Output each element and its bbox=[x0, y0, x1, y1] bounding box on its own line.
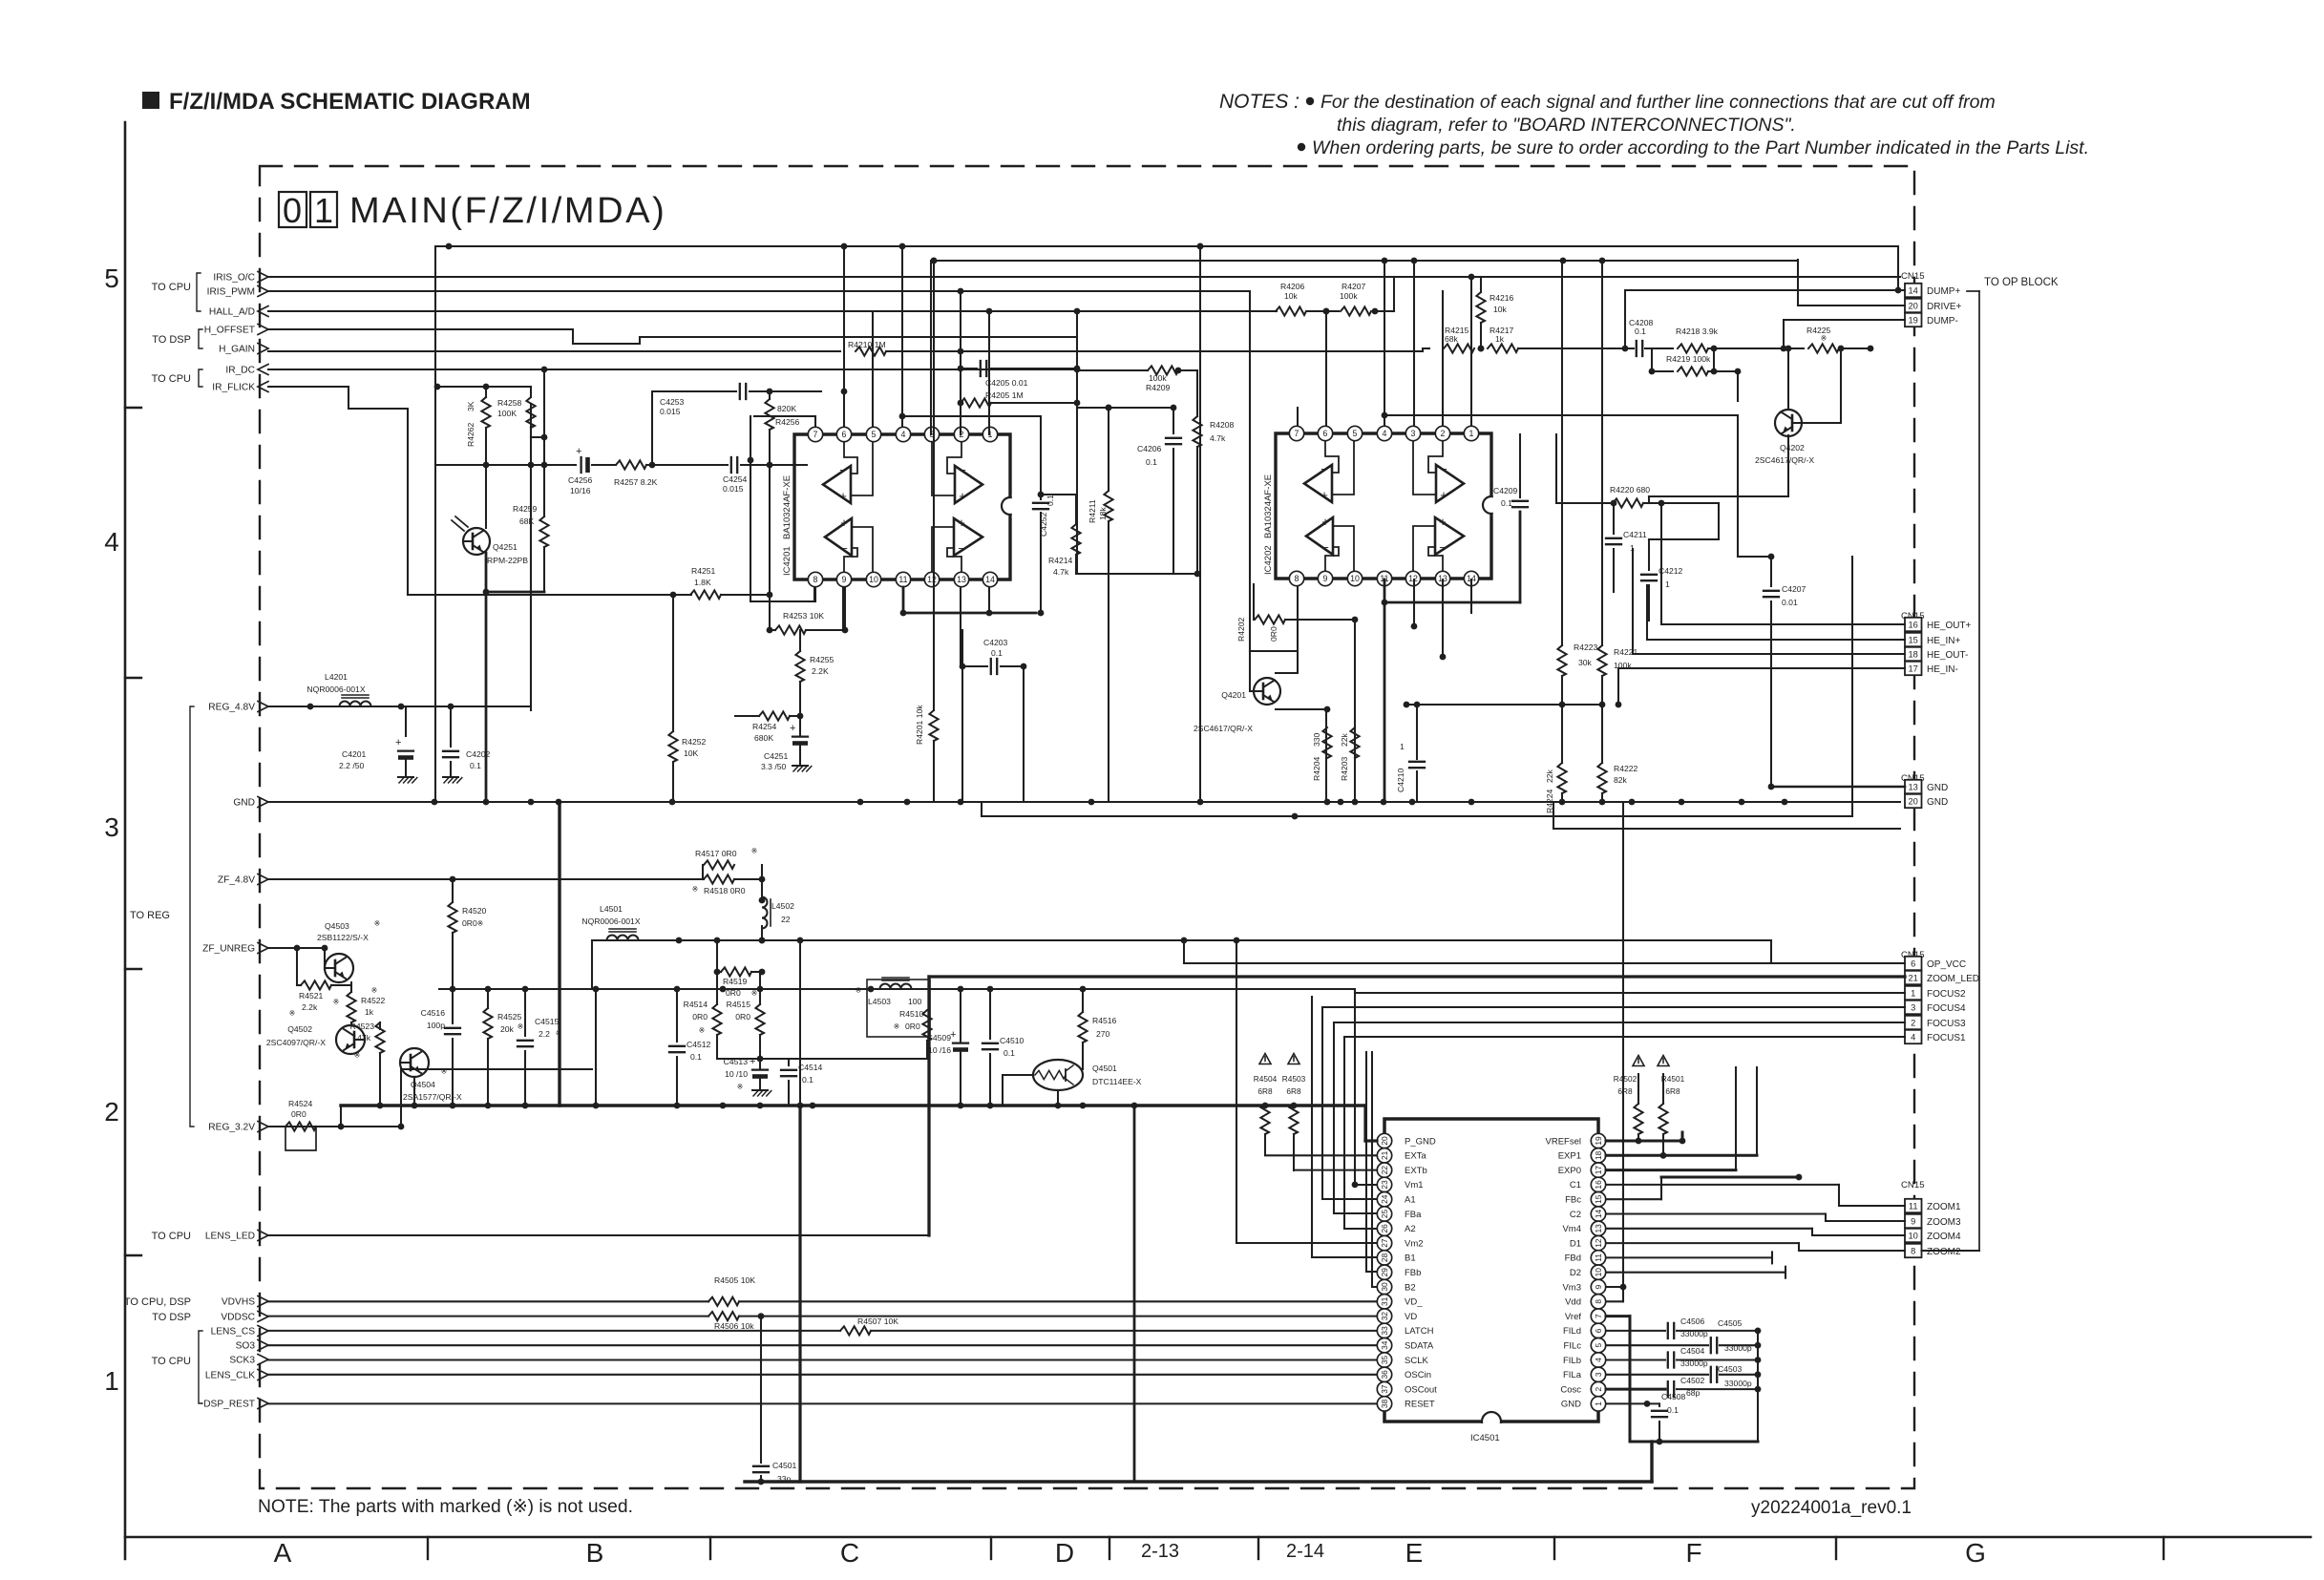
svg-text:R4225: R4225 bbox=[1806, 326, 1831, 335]
svg-text:※: ※ bbox=[371, 986, 378, 995]
svg-text:4.7k: 4.7k bbox=[1210, 433, 1226, 443]
svg-text:R4205 1M: R4205 1M bbox=[985, 390, 1024, 400]
svg-text:0R0: 0R0 bbox=[735, 1012, 750, 1022]
svg-text:R4524: R4524 bbox=[288, 1099, 313, 1108]
svg-text:2.2: 2.2 bbox=[539, 1029, 550, 1039]
svg-text:2: 2 bbox=[1594, 1386, 1603, 1391]
svg-text:Q4502: Q4502 bbox=[287, 1024, 312, 1034]
svg-text:LENS_LED: LENS_LED bbox=[205, 1232, 255, 1242]
svg-text:LATCH: LATCH bbox=[1405, 1326, 1434, 1337]
svg-text:Q4201: Q4201 bbox=[1221, 690, 1246, 700]
svg-text:C4206: C4206 bbox=[1137, 444, 1162, 453]
svg-text:100: 100 bbox=[908, 997, 922, 1006]
svg-text:FILb: FILb bbox=[1563, 1356, 1581, 1366]
svg-text:R4521: R4521 bbox=[299, 991, 324, 1001]
svg-text:IC4501: IC4501 bbox=[1470, 1433, 1500, 1443]
svg-text:VD: VD bbox=[1405, 1312, 1417, 1322]
svg-text:C4202: C4202 bbox=[466, 749, 491, 759]
svg-text:0.1: 0.1 bbox=[470, 761, 481, 770]
svg-text:IC4202: IC4202 bbox=[1263, 545, 1274, 575]
svg-text:TO CPU: TO CPU bbox=[152, 1356, 191, 1367]
svg-text:TO CPU: TO CPU bbox=[152, 373, 191, 385]
svg-text:C4512: C4512 bbox=[687, 1040, 711, 1049]
svg-text:IR_DC: IR_DC bbox=[225, 366, 255, 376]
svg-text:P_GND: P_GND bbox=[1405, 1136, 1436, 1147]
svg-text:DSP_REST: DSP_REST bbox=[203, 1400, 255, 1410]
svg-text:OSCin: OSCin bbox=[1405, 1370, 1431, 1380]
svg-text:R4520: R4520 bbox=[462, 906, 487, 916]
svg-text:※: ※ bbox=[751, 847, 758, 855]
svg-text:4: 4 bbox=[1911, 1032, 1915, 1042]
svg-text:R4220 680: R4220 680 bbox=[1610, 485, 1650, 495]
svg-text:2.2k: 2.2k bbox=[302, 1002, 318, 1012]
svg-text:0R0: 0R0 bbox=[905, 1022, 920, 1031]
svg-text:GND: GND bbox=[1927, 797, 1948, 808]
svg-text:680K: 680K bbox=[754, 733, 773, 743]
svg-text:Cosc: Cosc bbox=[1560, 1384, 1581, 1395]
svg-text:0R0: 0R0 bbox=[1269, 626, 1278, 642]
svg-text:※: ※ bbox=[751, 989, 758, 998]
svg-text:R4202: R4202 bbox=[1236, 617, 1246, 642]
svg-text:12: 12 bbox=[1594, 1238, 1603, 1248]
svg-text:※: ※ bbox=[737, 1083, 744, 1091]
svg-text:820K: 820K bbox=[777, 404, 796, 413]
svg-text:L4201: L4201 bbox=[325, 672, 348, 682]
svg-text:10: 10 bbox=[1350, 574, 1360, 583]
svg-text:23: 23 bbox=[1380, 1180, 1389, 1190]
svg-text:1: 1 bbox=[1594, 1401, 1603, 1406]
svg-text:C4505: C4505 bbox=[1718, 1318, 1743, 1328]
svg-text:RPM-22PB: RPM-22PB bbox=[487, 556, 528, 565]
svg-text:SDATA: SDATA bbox=[1405, 1341, 1434, 1352]
svg-text:−: − bbox=[958, 541, 965, 556]
svg-text:C4501: C4501 bbox=[772, 1461, 797, 1470]
svg-text:REG_3.2V: REG_3.2V bbox=[208, 1123, 255, 1133]
svg-text:A1: A1 bbox=[1405, 1195, 1416, 1206]
svg-text:C4252: C4252 bbox=[1039, 512, 1048, 537]
svg-text:27: 27 bbox=[1380, 1238, 1389, 1248]
svg-text:FOCUS1: FOCUS1 bbox=[1927, 1033, 1966, 1043]
svg-text:1: 1 bbox=[1400, 742, 1405, 751]
svg-text:0R0: 0R0 bbox=[692, 1012, 708, 1022]
svg-text:10: 10 bbox=[1594, 1268, 1603, 1277]
svg-text:3: 3 bbox=[1411, 429, 1416, 438]
svg-text:R4204: R4204 bbox=[1312, 756, 1321, 781]
svg-text:C4205 0.01: C4205 0.01 bbox=[985, 378, 1028, 388]
svg-text:DRIVE+: DRIVE+ bbox=[1927, 302, 1962, 312]
svg-text:6R8: 6R8 bbox=[1665, 1086, 1680, 1096]
svg-text:FILd: FILd bbox=[1563, 1326, 1581, 1337]
svg-text:10 /10: 10 /10 bbox=[725, 1069, 748, 1079]
svg-text:Vm4: Vm4 bbox=[1562, 1224, 1581, 1234]
svg-text:ZOOM3: ZOOM3 bbox=[1927, 1217, 1961, 1228]
svg-text:TO CPU, DSP: TO CPU, DSP bbox=[124, 1296, 191, 1308]
svg-text:C4506: C4506 bbox=[1680, 1317, 1705, 1326]
svg-text:A: A bbox=[274, 1538, 292, 1568]
svg-text:BA10324AF-XE: BA10324AF-XE bbox=[782, 475, 792, 539]
svg-text:2SC4617/QR/-X: 2SC4617/QR/-X bbox=[1194, 724, 1253, 733]
svg-text:R4223: R4223 bbox=[1574, 643, 1598, 652]
svg-text:※: ※ bbox=[333, 998, 340, 1006]
svg-text:Q4501: Q4501 bbox=[1092, 1064, 1117, 1073]
svg-text:R4501: R4501 bbox=[1661, 1074, 1685, 1084]
svg-text:19: 19 bbox=[1909, 315, 1918, 325]
svg-text:DUMP+: DUMP+ bbox=[1927, 286, 1960, 297]
svg-text:6R8: 6R8 bbox=[1257, 1086, 1273, 1096]
svg-text:FBd: FBd bbox=[1565, 1253, 1581, 1264]
svg-text:C4207: C4207 bbox=[1782, 584, 1806, 594]
svg-text:0.1: 0.1 bbox=[1667, 1405, 1679, 1415]
svg-text:Vm2: Vm2 bbox=[1405, 1238, 1424, 1249]
svg-text:IR_FLICK: IR_FLICK bbox=[212, 383, 255, 393]
svg-text:7: 7 bbox=[1295, 429, 1299, 438]
svg-text:20k: 20k bbox=[500, 1024, 515, 1034]
svg-text:EXTb: EXTb bbox=[1405, 1166, 1427, 1176]
svg-text:0.1: 0.1 bbox=[1501, 498, 1512, 508]
svg-text:+: + bbox=[1321, 515, 1329, 529]
svg-text:1k: 1k bbox=[365, 1007, 374, 1017]
svg-text:C: C bbox=[840, 1538, 859, 1568]
svg-text:R4251: R4251 bbox=[691, 566, 716, 576]
svg-text:−: − bbox=[1440, 462, 1447, 476]
svg-text:10: 10 bbox=[1909, 1231, 1918, 1240]
svg-text:25: 25 bbox=[1380, 1210, 1389, 1219]
svg-text:8: 8 bbox=[1295, 574, 1299, 583]
svg-text:0R0: 0R0 bbox=[726, 988, 741, 998]
svg-text:OP_VCC: OP_VCC bbox=[1927, 959, 1966, 970]
svg-text:FOCUS2: FOCUS2 bbox=[1927, 989, 1966, 1000]
svg-text:B: B bbox=[586, 1538, 604, 1568]
svg-text:y20224001a_rev0.1: y20224001a_rev0.1 bbox=[1751, 1498, 1912, 1518]
svg-text:TO DSP: TO DSP bbox=[152, 1312, 191, 1323]
svg-text:R4517 0R0: R4517 0R0 bbox=[695, 849, 737, 858]
svg-text:DTC114EE-X: DTC114EE-X bbox=[1092, 1077, 1142, 1086]
svg-text:2-14: 2-14 bbox=[1286, 1541, 1324, 1562]
svg-text:R4262: R4262 bbox=[466, 422, 475, 447]
svg-text:8: 8 bbox=[813, 575, 818, 584]
svg-text:VREFsel: VREFsel bbox=[1546, 1136, 1581, 1147]
svg-text:C4515: C4515 bbox=[535, 1017, 560, 1026]
svg-text:SO3: SO3 bbox=[236, 1341, 256, 1352]
svg-text:R4514: R4514 bbox=[684, 1000, 708, 1009]
svg-text:3.3 /50: 3.3 /50 bbox=[761, 762, 787, 771]
svg-text:1: 1 bbox=[314, 191, 333, 230]
svg-text:Vref: Vref bbox=[1565, 1312, 1581, 1322]
svg-text:※: ※ bbox=[289, 1009, 296, 1018]
svg-text:R4518 0R0: R4518 0R0 bbox=[704, 886, 746, 895]
svg-text:9: 9 bbox=[1911, 1216, 1915, 1226]
svg-text:19: 19 bbox=[1594, 1136, 1603, 1146]
svg-text:FBc: FBc bbox=[1565, 1195, 1581, 1206]
svg-text:9: 9 bbox=[1594, 1284, 1603, 1289]
svg-text:GND: GND bbox=[1927, 783, 1948, 793]
svg-text:10 /16: 10 /16 bbox=[928, 1045, 951, 1055]
svg-text:OSCout: OSCout bbox=[1405, 1384, 1437, 1395]
svg-text:FOCUS3: FOCUS3 bbox=[1927, 1019, 1966, 1029]
svg-text:12: 12 bbox=[927, 575, 937, 584]
svg-text:HALL_A/D: HALL_A/D bbox=[209, 307, 255, 318]
svg-text:R4522: R4522 bbox=[361, 996, 386, 1005]
svg-text:1.8K: 1.8K bbox=[694, 578, 711, 587]
svg-text:6R8: 6R8 bbox=[1617, 1086, 1633, 1096]
svg-text:※: ※ bbox=[692, 885, 699, 894]
svg-text:14: 14 bbox=[985, 575, 995, 584]
svg-text:5: 5 bbox=[872, 430, 877, 439]
svg-text:14: 14 bbox=[1909, 285, 1918, 295]
svg-text:R4214: R4214 bbox=[1048, 556, 1073, 565]
svg-text:D2: D2 bbox=[1570, 1268, 1581, 1278]
svg-text:L4502: L4502 bbox=[771, 901, 794, 911]
svg-text:R4506 10k: R4506 10k bbox=[714, 1321, 754, 1331]
svg-text:15: 15 bbox=[1594, 1194, 1603, 1204]
svg-text:IRIS_PWM: IRIS_PWM bbox=[207, 287, 255, 298]
svg-text:−: − bbox=[1439, 540, 1447, 555]
svg-text:R4257 8.2K: R4257 8.2K bbox=[614, 477, 658, 487]
svg-text:D1: D1 bbox=[1570, 1238, 1581, 1249]
svg-text:21: 21 bbox=[1909, 973, 1918, 982]
svg-text:3: 3 bbox=[104, 812, 119, 842]
svg-text:3: 3 bbox=[1911, 1002, 1915, 1012]
svg-text:C4502: C4502 bbox=[1680, 1376, 1705, 1385]
svg-text:IC4201: IC4201 bbox=[782, 546, 792, 576]
svg-text:6: 6 bbox=[1323, 429, 1328, 438]
svg-text:E: E bbox=[1405, 1538, 1424, 1568]
svg-text:2.2K: 2.2K bbox=[812, 666, 829, 676]
svg-text:NOTES :: NOTES : bbox=[1219, 91, 1299, 113]
svg-text:R4252: R4252 bbox=[682, 737, 707, 747]
svg-text:R4255: R4255 bbox=[810, 655, 835, 664]
svg-text:37: 37 bbox=[1380, 1384, 1389, 1394]
svg-text:6: 6 bbox=[1594, 1328, 1603, 1333]
svg-text:R4216: R4216 bbox=[1489, 293, 1514, 303]
svg-text:0.1: 0.1 bbox=[1004, 1048, 1015, 1058]
svg-text:D: D bbox=[1055, 1538, 1074, 1568]
svg-text:33000p: 33000p bbox=[1680, 1359, 1708, 1368]
svg-text:2-13: 2-13 bbox=[1141, 1541, 1179, 1562]
svg-text:TO REG: TO REG bbox=[130, 910, 170, 921]
svg-text:GND: GND bbox=[1561, 1400, 1581, 1410]
svg-text:TO DSP: TO DSP bbox=[152, 334, 191, 346]
svg-text:LENS_CS: LENS_CS bbox=[211, 1327, 256, 1338]
svg-text:4: 4 bbox=[104, 527, 119, 557]
svg-text:22k: 22k bbox=[1340, 732, 1349, 747]
svg-text:R4256: R4256 bbox=[775, 417, 800, 427]
svg-text:R4254: R4254 bbox=[752, 722, 777, 731]
svg-text:C4203: C4203 bbox=[983, 638, 1008, 647]
svg-text:0.015: 0.015 bbox=[723, 484, 744, 494]
svg-text:CN15: CN15 bbox=[1901, 271, 1925, 282]
svg-text:+: + bbox=[790, 723, 795, 734]
svg-text:3: 3 bbox=[1594, 1372, 1603, 1377]
svg-text:R4504: R4504 bbox=[1254, 1074, 1278, 1084]
svg-text:C4253: C4253 bbox=[660, 397, 685, 407]
svg-text:※: ※ bbox=[354, 1051, 361, 1060]
svg-text:−: − bbox=[959, 463, 966, 477]
svg-text:20: 20 bbox=[1909, 796, 1918, 806]
svg-text:5: 5 bbox=[1353, 429, 1358, 438]
svg-text:IRIS_O/C: IRIS_O/C bbox=[213, 273, 255, 284]
svg-text:※: ※ bbox=[894, 1022, 900, 1031]
svg-text:100K: 100K bbox=[497, 409, 517, 418]
svg-text:TO OP BLOCK: TO OP BLOCK bbox=[1984, 277, 2059, 288]
svg-text:R4259: R4259 bbox=[513, 504, 538, 514]
svg-text:1: 1 bbox=[1469, 429, 1474, 438]
svg-text:MAIN(F/Z/I/MDA): MAIN(F/Z/I/MDA) bbox=[349, 191, 666, 231]
svg-text:A2: A2 bbox=[1405, 1224, 1416, 1234]
svg-text:22k: 22k bbox=[1545, 769, 1554, 783]
svg-text:33000p: 33000p bbox=[1724, 1343, 1752, 1353]
svg-text:TO CPU: TO CPU bbox=[152, 282, 191, 293]
svg-text:L4501: L4501 bbox=[600, 904, 623, 914]
svg-text:11: 11 bbox=[898, 575, 907, 584]
svg-text:20: 20 bbox=[1380, 1136, 1389, 1146]
svg-text:L4503: L4503 bbox=[868, 997, 891, 1006]
svg-text:R4208: R4208 bbox=[1210, 420, 1235, 430]
svg-text:22: 22 bbox=[1380, 1166, 1389, 1175]
svg-text:R4203: R4203 bbox=[1340, 756, 1349, 781]
svg-text:R4209: R4209 bbox=[1146, 383, 1171, 392]
svg-text:0R0: 0R0 bbox=[291, 1109, 306, 1119]
svg-text:Q4503: Q4503 bbox=[325, 921, 349, 931]
svg-text:0.015: 0.015 bbox=[660, 407, 681, 416]
svg-text:+: + bbox=[958, 516, 965, 530]
svg-text:R4218 3.9k: R4218 3.9k bbox=[1676, 327, 1719, 336]
svg-text:F: F bbox=[1685, 1538, 1701, 1568]
svg-text:6: 6 bbox=[1911, 959, 1915, 968]
svg-text:C4514: C4514 bbox=[798, 1063, 823, 1072]
svg-text:F/Z/I/MDA SCHEMATIC DIAGRAM: F/Z/I/MDA SCHEMATIC DIAGRAM bbox=[169, 89, 531, 115]
svg-text:R4516: R4516 bbox=[1092, 1016, 1117, 1025]
svg-text:8: 8 bbox=[1594, 1299, 1603, 1304]
svg-text:C4209: C4209 bbox=[1493, 486, 1518, 495]
svg-text:0.1: 0.1 bbox=[690, 1052, 702, 1062]
svg-text:R4210 1M: R4210 1M bbox=[848, 340, 886, 349]
svg-text:26: 26 bbox=[1380, 1224, 1389, 1233]
svg-text:Vm3: Vm3 bbox=[1562, 1282, 1581, 1293]
svg-text:3K: 3K bbox=[466, 401, 475, 411]
svg-text:FBb: FBb bbox=[1405, 1268, 1421, 1278]
svg-text:9: 9 bbox=[842, 575, 847, 584]
svg-text:2: 2 bbox=[104, 1097, 119, 1127]
svg-text:※: ※ bbox=[856, 986, 862, 995]
svg-text:※: ※ bbox=[699, 1026, 706, 1035]
svg-text:ZOOM1: ZOOM1 bbox=[1927, 1202, 1961, 1212]
svg-text:+: + bbox=[1320, 488, 1328, 502]
svg-text:C4254: C4254 bbox=[723, 474, 748, 484]
svg-text:18k: 18k bbox=[1098, 506, 1108, 520]
svg-text:9: 9 bbox=[1323, 574, 1328, 583]
svg-text:R4505 10K: R4505 10K bbox=[714, 1275, 755, 1285]
svg-text:NQR0006-001X: NQR0006-001X bbox=[306, 685, 365, 694]
svg-text:33: 33 bbox=[1380, 1326, 1389, 1336]
svg-text:R4206: R4206 bbox=[1280, 282, 1305, 291]
svg-text:ZOOM2: ZOOM2 bbox=[1927, 1247, 1961, 1257]
svg-text:R4525: R4525 bbox=[497, 1012, 522, 1022]
svg-text:REG_4.8V: REG_4.8V bbox=[208, 703, 255, 713]
svg-text:2SC4097/QR/-X: 2SC4097/QR/-X bbox=[266, 1038, 326, 1047]
svg-text:B1: B1 bbox=[1405, 1253, 1416, 1264]
svg-text:※: ※ bbox=[477, 919, 484, 928]
svg-text:100p: 100p bbox=[427, 1021, 445, 1030]
svg-text:13: 13 bbox=[1909, 782, 1918, 791]
svg-text:6R8: 6R8 bbox=[1286, 1086, 1301, 1096]
svg-text:1: 1 bbox=[1665, 579, 1670, 589]
svg-text:C4510: C4510 bbox=[1000, 1036, 1025, 1045]
svg-text:4: 4 bbox=[901, 430, 906, 439]
svg-text:GND: GND bbox=[233, 798, 255, 809]
svg-text:SCK3: SCK3 bbox=[229, 1356, 255, 1366]
svg-text:EXP0: EXP0 bbox=[1558, 1166, 1581, 1176]
svg-text:7: 7 bbox=[813, 430, 818, 439]
svg-text:C4251: C4251 bbox=[764, 751, 789, 761]
svg-text:+: + bbox=[395, 737, 401, 748]
svg-text:HE_IN-: HE_IN- bbox=[1927, 664, 1958, 675]
svg-text:R4523: R4523 bbox=[350, 1022, 375, 1031]
svg-text:C4503: C4503 bbox=[1718, 1364, 1743, 1374]
svg-text:+: + bbox=[1440, 488, 1447, 502]
svg-text:FBa: FBa bbox=[1405, 1210, 1422, 1220]
svg-text:FOCUS4: FOCUS4 bbox=[1927, 1003, 1966, 1014]
svg-text:17: 17 bbox=[1909, 664, 1918, 673]
svg-text:R4519: R4519 bbox=[723, 977, 748, 986]
svg-text:31: 31 bbox=[1380, 1296, 1389, 1306]
svg-text:30k: 30k bbox=[1578, 658, 1593, 667]
svg-text:+: + bbox=[1439, 515, 1447, 529]
svg-text:2: 2 bbox=[1441, 429, 1446, 438]
svg-text:10k: 10k bbox=[1493, 305, 1508, 314]
svg-text:6: 6 bbox=[842, 430, 847, 439]
svg-text:R4207: R4207 bbox=[1342, 282, 1366, 291]
svg-text:36: 36 bbox=[1380, 1370, 1389, 1380]
svg-text:30: 30 bbox=[1380, 1282, 1389, 1292]
svg-text:0R0: 0R0 bbox=[462, 918, 477, 928]
svg-text:17: 17 bbox=[1594, 1166, 1603, 1175]
svg-text:10K: 10K bbox=[684, 748, 699, 758]
svg-text:14: 14 bbox=[1594, 1210, 1603, 1219]
svg-text:R4221: R4221 bbox=[1614, 647, 1638, 657]
svg-text:4.7k: 4.7k bbox=[1053, 567, 1069, 577]
svg-text:C4504: C4504 bbox=[1680, 1346, 1705, 1356]
svg-text:+: + bbox=[959, 489, 966, 503]
svg-text:C4211: C4211 bbox=[1623, 530, 1647, 539]
svg-text:R4224: R4224 bbox=[1545, 789, 1554, 813]
svg-text:C1: C1 bbox=[1570, 1180, 1581, 1190]
svg-text:+: + bbox=[750, 1056, 755, 1067]
svg-text:C4508: C4508 bbox=[1661, 1392, 1686, 1401]
svg-text:68p: 68p bbox=[1686, 1388, 1701, 1398]
svg-text:ZF_4.8V: ZF_4.8V bbox=[218, 875, 255, 886]
svg-text:this diagram, refer to "BOARD: this diagram, refer to "BOARD INTERCONNE… bbox=[1337, 115, 1796, 136]
svg-text:※: ※ bbox=[518, 1022, 524, 1031]
svg-text:7: 7 bbox=[1594, 1314, 1603, 1318]
svg-text:13: 13 bbox=[1594, 1224, 1603, 1233]
svg-text:10: 10 bbox=[869, 575, 878, 584]
svg-text:5: 5 bbox=[1594, 1343, 1603, 1348]
svg-text:0.1: 0.1 bbox=[802, 1075, 813, 1085]
svg-text:R4211: R4211 bbox=[1088, 499, 1097, 523]
svg-text:FILa: FILa bbox=[1563, 1370, 1582, 1380]
svg-text:16: 16 bbox=[1909, 620, 1918, 629]
svg-text:R4515: R4515 bbox=[727, 1000, 751, 1009]
svg-text:82k: 82k bbox=[1614, 775, 1628, 785]
svg-text:16: 16 bbox=[1594, 1180, 1603, 1190]
svg-text:SCLK: SCLK bbox=[1405, 1356, 1428, 1366]
svg-text:FILc: FILc bbox=[1564, 1341, 1582, 1352]
svg-text:−: − bbox=[1321, 540, 1329, 555]
svg-text:G: G bbox=[1965, 1538, 1986, 1568]
svg-text:Q4202: Q4202 bbox=[1780, 443, 1805, 453]
svg-text:ZOOM_LED: ZOOM_LED bbox=[1927, 974, 1979, 984]
